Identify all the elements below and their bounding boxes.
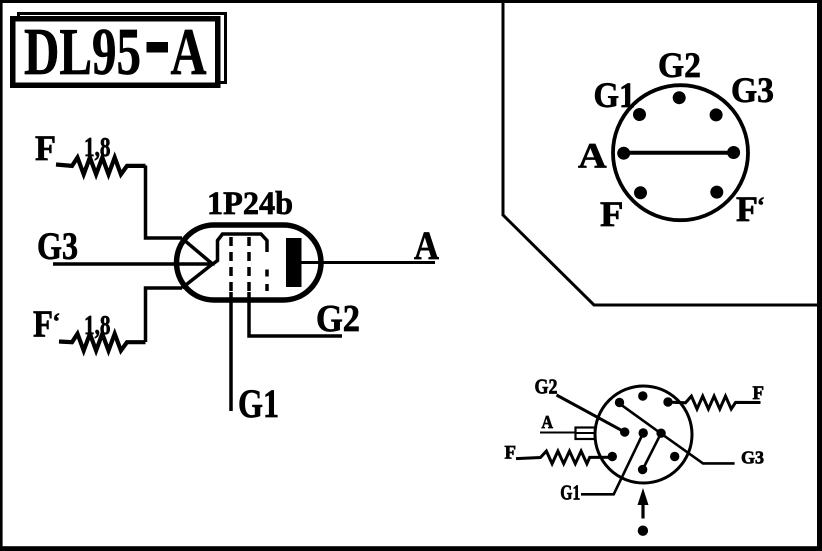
svg-text:‘: ‘ xyxy=(757,193,765,218)
pin G1 dot xyxy=(633,108,646,121)
anode plate bar xyxy=(286,238,302,287)
pin F dot xyxy=(634,186,647,199)
pin G3 dot xyxy=(710,108,723,121)
lead dot top-right xyxy=(663,397,672,406)
grid G2 dashed line xyxy=(247,237,251,293)
orientation arrow xyxy=(638,488,649,505)
svg-text:A: A xyxy=(542,412,554,432)
svg-text:F: F xyxy=(736,189,758,229)
svg-text:G2: G2 xyxy=(316,298,360,340)
lead dot top-left xyxy=(615,398,624,407)
svg-text:G3: G3 xyxy=(731,70,774,110)
key spigot xyxy=(576,428,596,440)
internal bar A to right pin xyxy=(624,151,734,155)
svg-text:A: A xyxy=(414,223,439,268)
pointer G1 to mid-center dot xyxy=(581,433,643,494)
DL95-A hyphen bar xyxy=(147,42,169,53)
pinout circle xyxy=(613,85,748,220)
lead dot mid-left xyxy=(620,427,629,436)
DL95-A title box xyxy=(13,19,218,86)
lead dot mid-center xyxy=(639,428,648,437)
resistor R2 (1,8) zigzag xyxy=(59,334,146,351)
svg-text:A: A xyxy=(171,15,207,89)
pin A dot xyxy=(617,147,630,160)
lead dot low-right xyxy=(670,452,679,461)
svg-text:F: F xyxy=(753,383,765,404)
lead dot mid-right xyxy=(656,429,665,438)
wire A underline xyxy=(540,432,576,434)
svg-text:G1: G1 xyxy=(560,481,580,505)
svg-text:A: A xyxy=(578,136,607,176)
wire anode lead xyxy=(301,261,435,264)
svg-text:G1: G1 xyxy=(238,381,279,426)
svg-text:G2: G2 xyxy=(658,45,701,85)
tube V1 envelope xyxy=(177,225,322,300)
page border frame xyxy=(0,0,822,3)
internal link bottom-center to mid-right xyxy=(643,433,662,469)
resistor R1 (1,8) zigzag xyxy=(56,158,146,175)
resistor F-left zigzag xyxy=(516,451,612,464)
grid G1 dashed line xyxy=(229,237,233,293)
svg-text:1P24b: 1P24b xyxy=(207,186,293,222)
svg-text:G2: G2 xyxy=(535,375,558,399)
pin right dot xyxy=(727,146,740,159)
svg-text:G1: G1 xyxy=(594,75,636,115)
svg-text:DL95: DL95 xyxy=(24,15,141,89)
wire G1 lead xyxy=(229,292,233,411)
base circle xyxy=(595,386,692,483)
wire F riser down to tube xyxy=(146,166,183,239)
orientation dot xyxy=(638,526,648,536)
grid G3 dashed lower part xyxy=(265,270,269,292)
filament (directly heated cathode) xyxy=(182,238,213,288)
svg-text:F: F xyxy=(33,304,53,346)
grid G3 internal hood xyxy=(214,234,268,264)
svg-text:F: F xyxy=(35,128,56,168)
pin F' dot xyxy=(710,186,723,199)
svg-text:G3: G3 xyxy=(741,448,764,468)
region divider polyline (top-right pinout panel boundary) xyxy=(503,0,822,305)
pin G2 dot xyxy=(673,91,686,104)
wire F' riser up to tube xyxy=(146,288,183,342)
wire G3 lead xyxy=(53,262,215,266)
pointer G2 to mid-left dot xyxy=(557,395,625,432)
resistor F-right zigzag xyxy=(667,396,761,409)
lead dot bottom-center xyxy=(638,465,647,474)
DL95-A title box shadow xyxy=(19,14,226,83)
pointer G3 from top-left dot xyxy=(619,403,735,463)
svg-text:G3: G3 xyxy=(37,225,78,268)
svg-text:F: F xyxy=(505,443,517,464)
svg-text:‘: ‘ xyxy=(53,309,61,334)
lead dot top-center xyxy=(638,391,647,400)
wire G2 lead xyxy=(249,292,342,336)
svg-text:F: F xyxy=(600,194,624,234)
lead dot low-left xyxy=(608,452,617,461)
